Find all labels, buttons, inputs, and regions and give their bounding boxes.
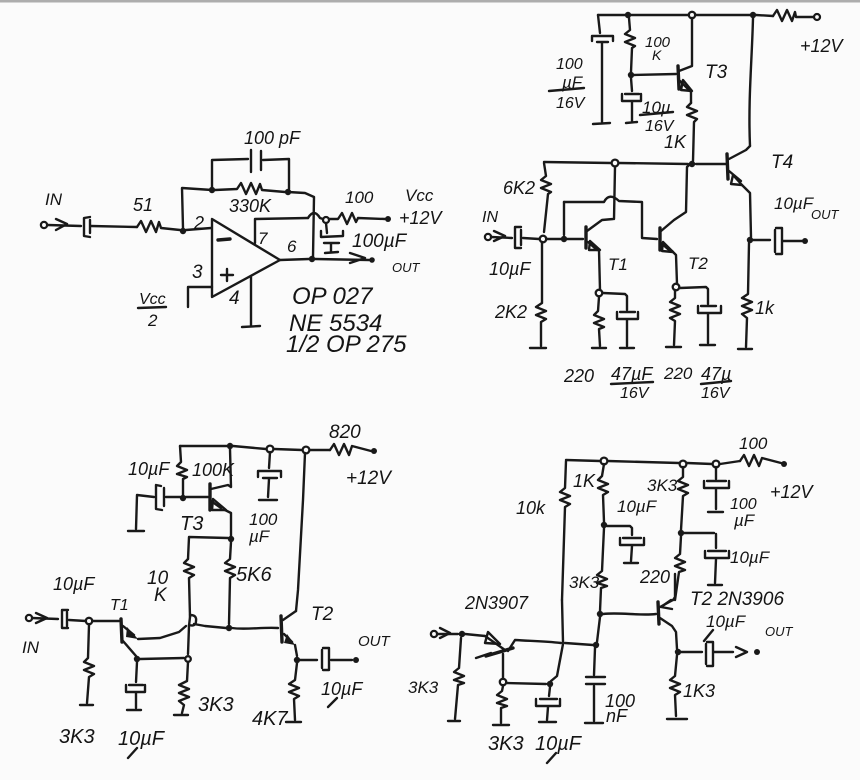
- svg-text:3K3: 3K3: [647, 476, 678, 495]
- svg-text:1/2 OP 275: 1/2 OP 275: [286, 331, 407, 358]
- svg-text:T3: T3: [705, 62, 728, 83]
- ground tick: [493, 724, 509, 726]
- wire to OUT: [331, 659, 352, 661]
- wire input: [437, 633, 458, 635]
- input terminal: [26, 615, 32, 621]
- svg-text:3K3: 3K3: [198, 694, 234, 716]
- svg-text:220: 220: [663, 364, 693, 383]
- svg-text:16V: 16V: [620, 385, 650, 402]
- svg-text:nF: nF: [606, 706, 628, 726]
- node 10uF/3K3: [547, 681, 553, 687]
- svg-text:OUT: OUT: [811, 207, 840, 222]
- node input circle: [540, 236, 547, 243]
- svg-text:10µF: 10µF: [118, 728, 166, 750]
- T1 emitter wire: [502, 654, 504, 678]
- T3 emitter arrow: [212, 499, 226, 510]
- transistor T2: [281, 616, 282, 642]
- transistor T1 bar: [486, 648, 513, 656]
- wire to out cap: [681, 651, 702, 653]
- resistor 1k: [742, 243, 752, 347]
- T2 emitter arrow: [662, 242, 673, 252]
- node input circle: [86, 618, 92, 624]
- capacitor 100uF: [321, 223, 343, 253]
- ground tick: [448, 720, 460, 722]
- svg-text:100µF: 100µF: [352, 231, 408, 252]
- ground tick: [667, 718, 687, 720]
- pin 3 stub wire: [188, 287, 212, 307]
- resistor 100: [329, 213, 385, 224]
- svg-text:K: K: [154, 585, 168, 606]
- signal arrow: [494, 231, 505, 241]
- node output: [747, 237, 753, 243]
- wire node to circle: [140, 658, 184, 659]
- transistor T3: [208, 484, 211, 510]
- resistor 51: [137, 221, 180, 232]
- svg-text:IN: IN: [45, 190, 63, 209]
- capacitor 100pF: [251, 150, 261, 172]
- resistor 3K3: [597, 528, 607, 611]
- node T2 emitter: [294, 657, 300, 663]
- wire output: [280, 259, 369, 260]
- svg-text:T1: T1: [110, 597, 129, 614]
- T1 emitter wire: [599, 250, 600, 290]
- node T3 base: [180, 495, 186, 501]
- wire T1 base: [93, 620, 119, 622]
- resistor 3K3 in: [454, 638, 464, 719]
- svg-text:16V: 16V: [701, 385, 731, 402]
- signal arrow: [36, 613, 47, 623]
- node 10uF tap: [601, 522, 607, 528]
- wire input: [491, 237, 512, 238]
- node T3 emitter: [228, 536, 234, 542]
- T1 collector wire: [123, 641, 136, 656]
- capacitor 100uF/16V: [592, 15, 613, 124]
- terminal +12V: [781, 461, 787, 467]
- capacitor 10uF in: [515, 227, 521, 248]
- signal arrow: [440, 628, 450, 638]
- node output: [309, 256, 315, 262]
- resistor 1K3: [670, 655, 680, 716]
- top rail: [566, 460, 740, 464]
- T4 emitter wire: [742, 185, 751, 237]
- transistor T1: [121, 619, 122, 642]
- svg-text:10µF: 10µF: [321, 679, 363, 699]
- svg-text:T2 2N3906: T2 2N3906: [690, 589, 784, 610]
- svg-text:6K2: 6K2: [503, 178, 535, 198]
- svg-text:4: 4: [229, 288, 240, 309]
- svg-text:5K6: 5K6: [236, 564, 272, 586]
- transistor T1 arrow: [485, 636, 505, 650]
- T1 collector wire: [508, 640, 593, 651]
- capacitor 47u wire: [680, 287, 708, 304]
- svg-text:10µF: 10µF: [617, 497, 658, 516]
- svg-text:6: 6: [287, 237, 297, 256]
- resistor 5K6: [225, 542, 235, 624]
- svg-text:OUT: OUT: [765, 624, 794, 639]
- resistor 100: [740, 455, 781, 466]
- svg-text:µF: µF: [733, 511, 756, 530]
- resistor 220: [675, 536, 685, 600]
- transistor T3: [678, 66, 679, 89]
- top +12V rail: [598, 15, 773, 16]
- svg-text:1K: 1K: [573, 471, 596, 491]
- svg-text:10µF: 10µF: [128, 459, 170, 479]
- svg-text:3K3: 3K3: [569, 573, 600, 592]
- node 330K left: [209, 187, 215, 193]
- capacitor 100uF: [704, 467, 729, 512]
- T2 emitter wire: [295, 645, 297, 656]
- wire T2 base: [232, 627, 278, 630]
- svg-text:+12V: +12V: [770, 482, 815, 502]
- resistor 3K3 in: [84, 625, 94, 703]
- terminal OUT: [802, 238, 808, 244]
- bootstrap wire left: [563, 202, 565, 235]
- node T3 base: [628, 72, 634, 78]
- wire down: [597, 617, 600, 642]
- capacitor 10uF right: [684, 533, 729, 585]
- capacitor C-in: [62, 610, 68, 628]
- node 1K circle: [601, 458, 608, 465]
- node T1 base: [561, 236, 567, 242]
- resistor 330K: [215, 183, 285, 194]
- svg-text:µF: µF: [248, 527, 271, 546]
- node junction input: [180, 228, 186, 234]
- svg-text:100K: 100K: [192, 460, 235, 480]
- terminal +12V: [371, 448, 377, 454]
- node T4 collector rail: [750, 12, 756, 18]
- svg-text:220: 220: [563, 366, 594, 386]
- resistor 3K3 top right: [678, 467, 688, 530]
- svg-text:Vcc: Vcc: [405, 186, 434, 205]
- svg-text:100: 100: [345, 188, 374, 207]
- signal arrow: [56, 219, 67, 230]
- svg-text:47µF: 47µF: [611, 364, 653, 384]
- node T2 collector circle: [303, 447, 310, 454]
- resistor 820: [330, 444, 371, 455]
- resistor 3K3 mid: [179, 662, 189, 713]
- svg-text:2K2: 2K2: [494, 302, 527, 322]
- svg-text:3K3: 3K3: [408, 678, 439, 697]
- svg-text:100: 100: [739, 434, 768, 453]
- svg-text:+12V: +12V: [346, 468, 393, 489]
- 100pF loop wires: [212, 159, 289, 189]
- ground tick: [738, 348, 752, 350]
- wire hop over feedback: [308, 213, 323, 219]
- transistor T1: [584, 227, 587, 248]
- capacitor 47uF: [617, 312, 638, 348]
- svg-text:10k: 10k: [516, 498, 546, 518]
- svg-text:T1: T1: [608, 255, 628, 274]
- mid rail: [544, 162, 726, 164]
- capacitor 47u: [698, 306, 721, 345]
- ground tick 220 right: [666, 346, 681, 348]
- input terminal: [485, 234, 491, 240]
- svg-text:820: 820: [329, 422, 361, 443]
- node 3K3 circle: [680, 461, 687, 468]
- capacitor 10uF out: [706, 642, 713, 666]
- resistor 100K: [177, 446, 187, 495]
- svg-text:OUT: OUT: [392, 260, 421, 275]
- T2 collector wire: [296, 453, 305, 611]
- terminal OUT: [754, 649, 760, 655]
- svg-text:10µF: 10µF: [774, 194, 815, 213]
- svg-text:OP 027: OP 027: [292, 283, 374, 310]
- svg-text:10µF: 10µF: [706, 612, 747, 631]
- node 100K top: [625, 12, 631, 18]
- T1 emitter arrow: [589, 241, 600, 250]
- svg-text:3: 3: [192, 262, 203, 283]
- T3 emitter wire: [690, 91, 692, 103]
- T2 emitter arrow: [661, 600, 672, 609]
- wire to 10K: [188, 537, 228, 559]
- feedback wire left: [182, 188, 212, 228]
- wire to out cap: [753, 239, 770, 241]
- capacitor 10uF T3: [128, 485, 180, 531]
- T1 emitter arrow: [126, 627, 138, 639]
- svg-text:+12V: +12V: [399, 208, 444, 228]
- wire to T1: [465, 634, 485, 636]
- resistor 4K7: [289, 663, 299, 720]
- node junction lower: [185, 656, 191, 662]
- svg-text:2N3907: 2N3907: [464, 593, 529, 613]
- capacitor 47uF wire: [603, 293, 627, 310]
- input terminal: [431, 631, 437, 637]
- svg-text:IN: IN: [22, 638, 40, 657]
- scan top edge: [0, 0, 860, 3]
- svg-text:3K3: 3K3: [488, 733, 524, 755]
- ground tick 3K3: [80, 704, 93, 706]
- node T1 emitter circle: [500, 679, 506, 685]
- svg-text:100 pF: 100 pF: [244, 128, 301, 148]
- svg-text:10µF: 10µF: [730, 548, 771, 567]
- svg-text:51: 51: [133, 195, 153, 215]
- feedback wire right: [288, 192, 314, 257]
- wire T2 base: [603, 613, 656, 614]
- wire 10K down: [551, 600, 563, 681]
- svg-text:10µF: 10µF: [53, 574, 95, 594]
- svg-text:2: 2: [193, 213, 204, 233]
- capacitor 10uF emitter: [536, 687, 560, 722]
- node emitter T2 circle: [673, 284, 680, 291]
- node T2 base tap: [597, 611, 603, 617]
- wire hop to 5K6 node: [194, 624, 226, 628]
- ground tick: [174, 714, 188, 716]
- input terminal: [41, 222, 47, 228]
- T3 emitter wire: [225, 510, 231, 536]
- capacitor 10uF mid: [607, 526, 644, 563]
- capacitor 10uF T1: [126, 662, 145, 710]
- wire cap to R 51: [91, 226, 137, 227]
- wire cap to node: [523, 238, 539, 239]
- node 10uF right tap: [678, 530, 684, 536]
- arrow out: [736, 647, 747, 657]
- wire T3 base: [186, 496, 208, 498]
- wire emitter to cap node: [507, 683, 546, 684]
- T2 emitter arrow: [284, 634, 295, 645]
- resistor 1K: [598, 464, 608, 522]
- ground: [242, 326, 260, 327]
- node mid rail T3/T2: [689, 161, 695, 167]
- svg-text:10µF: 10µF: [535, 733, 583, 755]
- wire input: [32, 618, 58, 619]
- wire to OUT: [714, 651, 733, 653]
- capacitor 10uF out: [775, 228, 782, 254]
- resistor top: [773, 10, 813, 21]
- capacitor 100uF: [258, 452, 281, 500]
- node T3 collector rail: [689, 12, 695, 18]
- junction Vcc node: [323, 217, 329, 223]
- node 5K6 bottom: [226, 625, 232, 631]
- pin 7 wire: [255, 218, 308, 243]
- node input: [459, 631, 465, 637]
- resistor 1K: [687, 103, 697, 161]
- transistor T4: [727, 154, 728, 179]
- svg-text:1K: 1K: [664, 132, 687, 152]
- svg-text:100: 100: [556, 56, 583, 73]
- wire to out cap: [300, 659, 317, 661]
- wire to node: [69, 620, 86, 621]
- wire to OUT: [783, 240, 802, 242]
- resistor 2K2: [536, 242, 546, 346]
- minus sign: [218, 239, 230, 240]
- capacitor 10uF out: [322, 648, 329, 670]
- wire T3 base: [634, 74, 676, 75]
- ground tick 2K2: [530, 347, 546, 349]
- svg-text:1k: 1k: [755, 298, 775, 318]
- svg-text:4K7: 4K7: [252, 708, 288, 730]
- resistor 3K3 emitter: [497, 686, 507, 723]
- svg-text:1K3: 1K3: [683, 681, 715, 701]
- node T3 collector: [227, 443, 233, 449]
- transistor T2: [658, 228, 661, 250]
- resistor 100K: [625, 18, 635, 72]
- capacitor 100nF: [585, 648, 605, 723]
- plus sign: [221, 269, 233, 281]
- resistor 6K2: [541, 163, 551, 232]
- top rail: [180, 446, 330, 450]
- svg-text:3K3: 3K3: [59, 726, 95, 748]
- wire between nodes: [188, 617, 190, 654]
- capacitor 10u/16V: [622, 78, 641, 123]
- terminal OUT: [353, 657, 359, 663]
- terminal Vcc: [385, 216, 391, 222]
- svg-text:10µF: 10µF: [489, 259, 531, 279]
- T4 collector wire: [749, 18, 753, 146]
- svg-text:T2: T2: [311, 604, 334, 625]
- svg-text:T4: T4: [771, 152, 793, 173]
- node output: [675, 649, 681, 655]
- svg-text:16V: 16V: [556, 95, 586, 112]
- node 100uF circle: [713, 461, 720, 468]
- svg-text:K: K: [652, 47, 662, 63]
- op-amp U1 triangle: [212, 219, 280, 297]
- wire to pin 2: [186, 228, 211, 230]
- wire input: [48, 225, 81, 226]
- T1 emitter wire to hop: [138, 626, 186, 639]
- svg-text:OUT: OUT: [358, 633, 392, 650]
- svg-text:2: 2: [147, 311, 158, 330]
- svg-text:330K: 330K: [229, 196, 272, 216]
- svg-text:Vcc: Vcc: [139, 291, 166, 308]
- pin 4 wire: [250, 277, 252, 326]
- node bootstrap circle: [612, 160, 619, 167]
- bootstrap wire top: [564, 197, 657, 239]
- terminal +12V: [814, 14, 820, 20]
- node 330K right: [285, 189, 291, 195]
- T2 collector wire down: [660, 618, 677, 649]
- capacitor C-in: [84, 217, 90, 237]
- svg-text:+12V: +12V: [800, 36, 845, 56]
- T3 emitter arrow: [681, 80, 692, 91]
- resistor 10K: [560, 461, 570, 600]
- transistor T2: [658, 602, 659, 624]
- terminal OUT: [369, 257, 375, 263]
- node hook junction: [189, 615, 196, 626]
- node T1 collector: [134, 656, 140, 662]
- ground tick 220: [592, 347, 606, 349]
- svg-text:220: 220: [639, 567, 670, 587]
- ground tick 4K7: [286, 721, 301, 723]
- resistor 220 right: [670, 290, 680, 345]
- svg-text:T3: T3: [180, 513, 203, 535]
- svg-text:IN: IN: [482, 209, 498, 226]
- node 100nF: [593, 642, 599, 648]
- T2 emitter wire up: [673, 574, 675, 600]
- resistor 220: [594, 297, 604, 346]
- arrow output: [350, 253, 365, 263]
- T2 emitter wire: [672, 251, 677, 284]
- svg-text:7: 7: [258, 229, 268, 248]
- resistor 10K: [184, 559, 194, 617]
- T4 emitter arrow: [731, 175, 742, 185]
- svg-text:T2: T2: [688, 254, 708, 273]
- node 100uF circle: [267, 446, 274, 453]
- node emitter T1 circle: [596, 290, 603, 297]
- wire base T1: [546, 238, 583, 240]
